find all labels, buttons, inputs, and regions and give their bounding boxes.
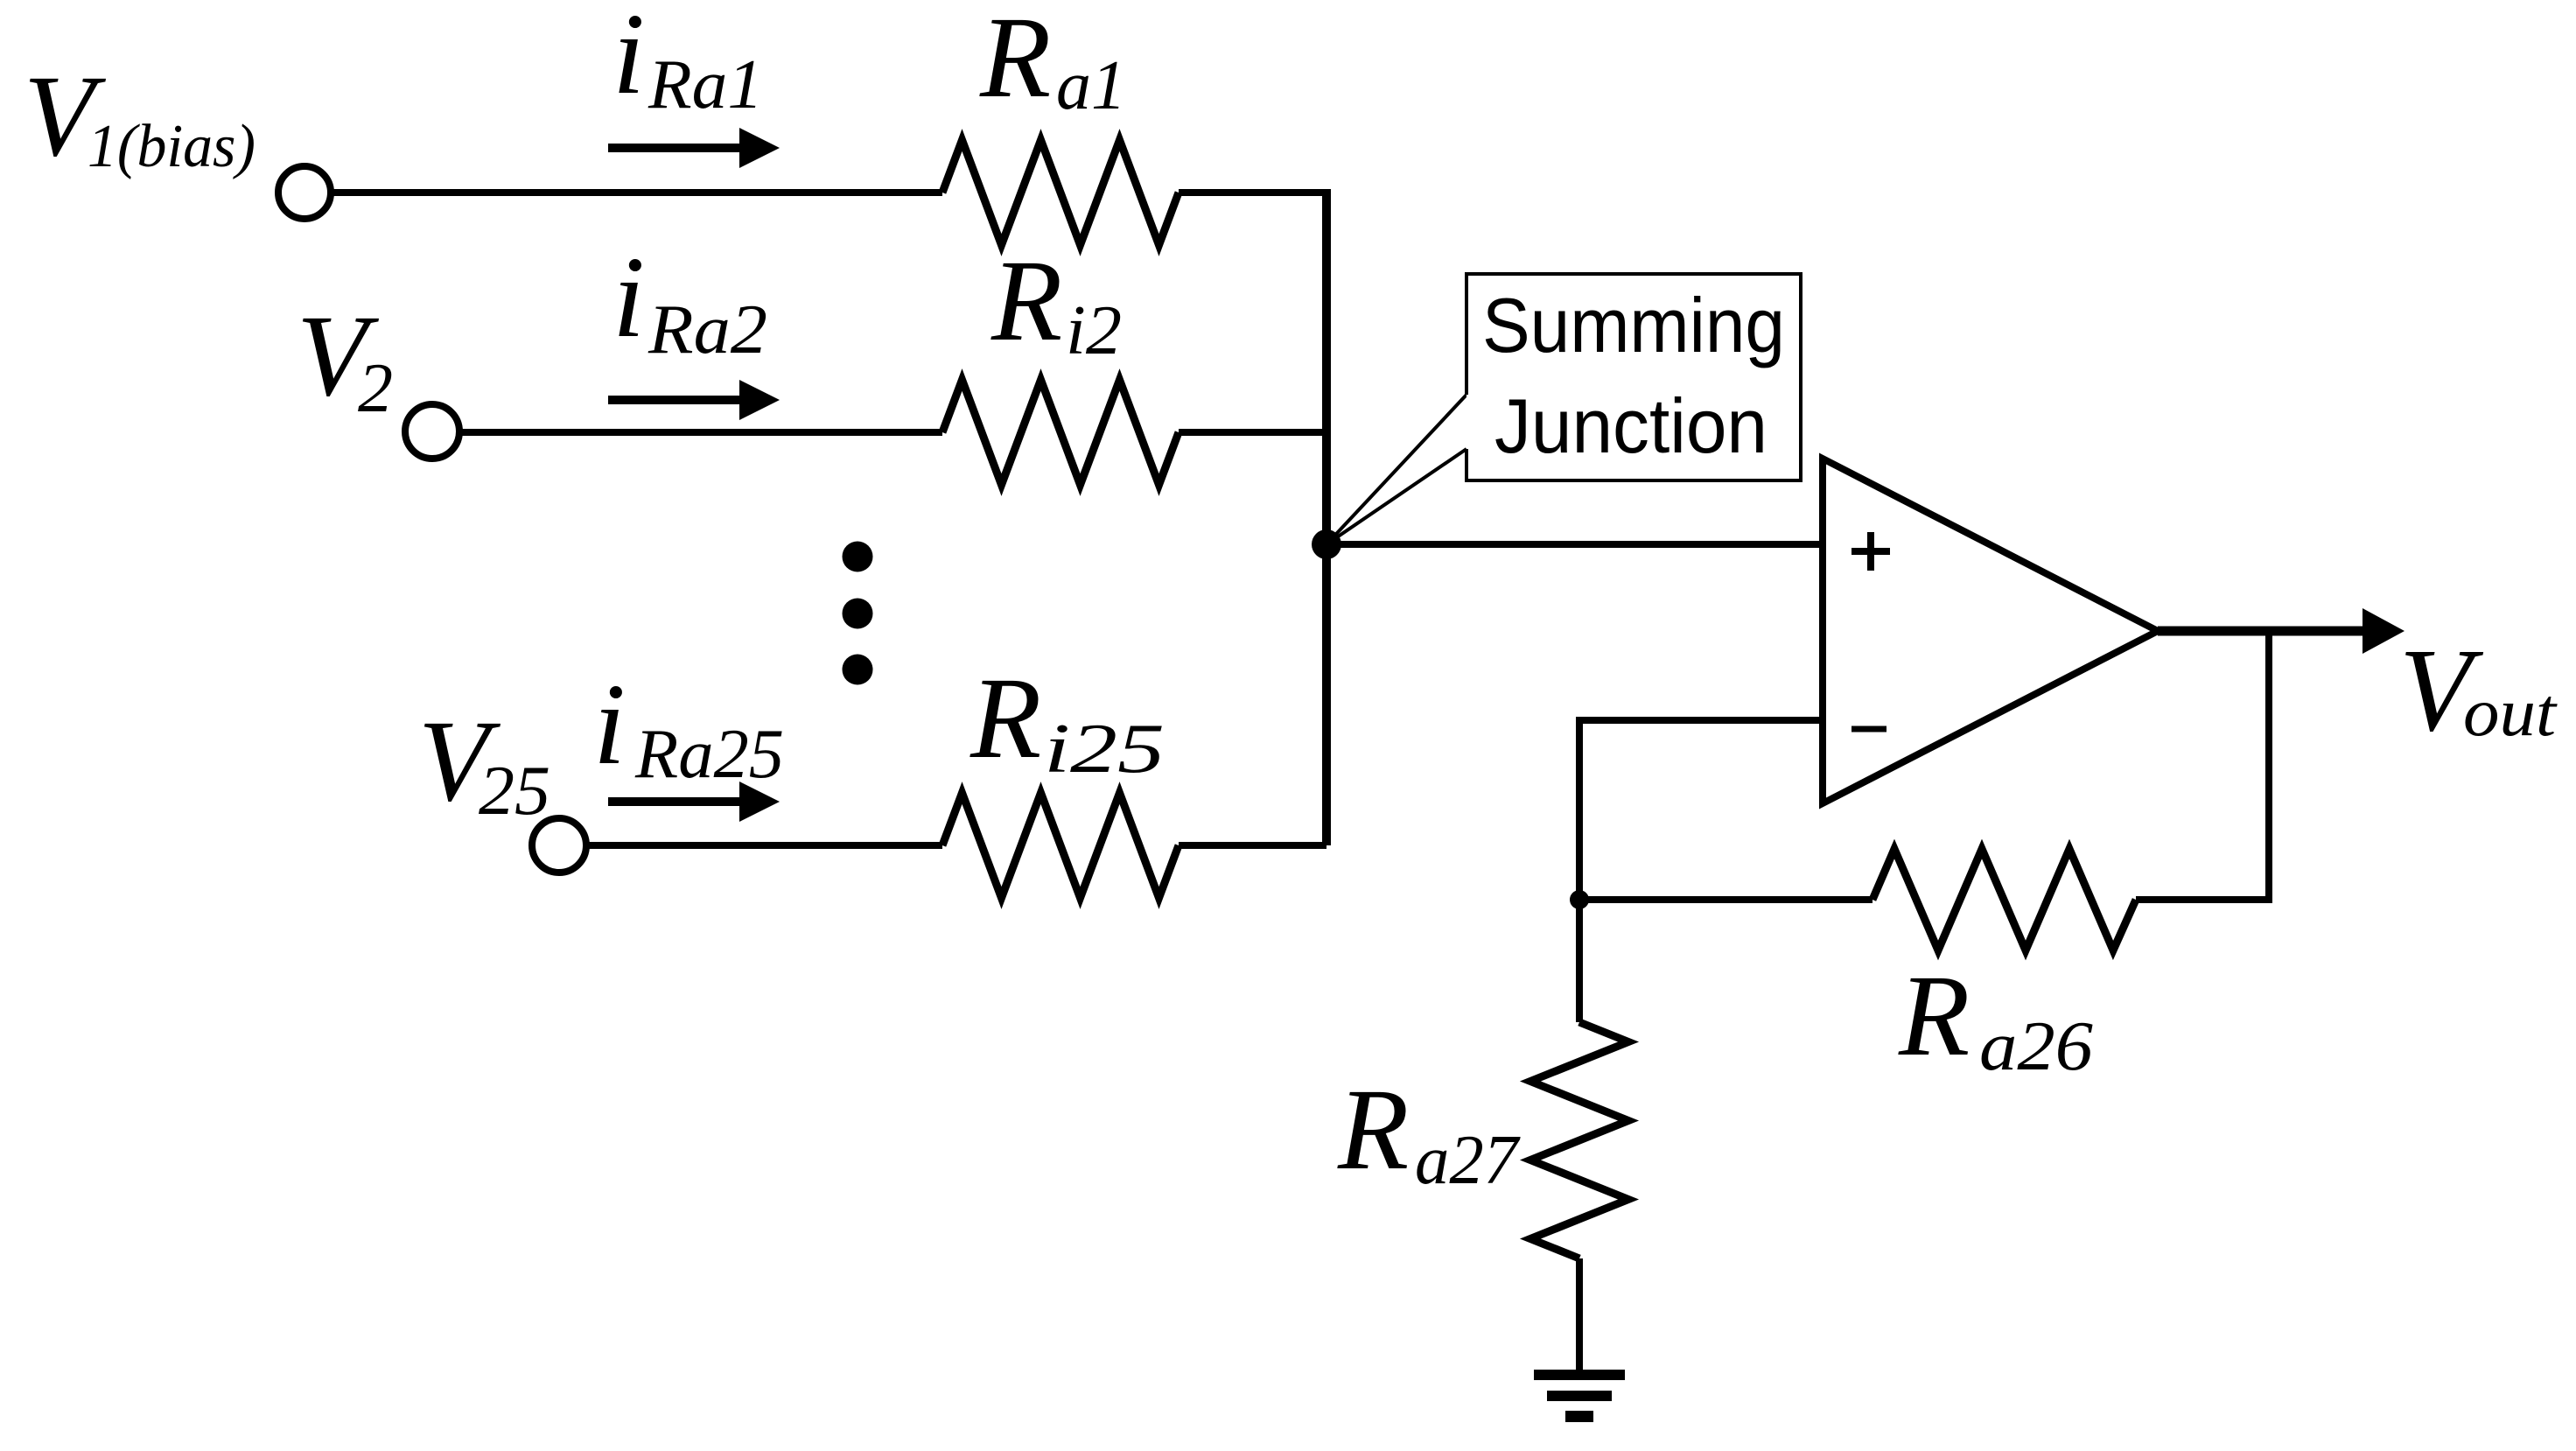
label iRa2 <box>612 232 767 368</box>
resistor Ra26 <box>1872 849 2136 950</box>
svg-text:i: i <box>612 0 645 118</box>
wire feedback node down to Ra27 <box>1576 900 1583 1022</box>
terminal V2 <box>405 404 459 459</box>
label Ra1 <box>979 0 1126 124</box>
current arrow iRa1 <box>608 128 780 168</box>
wire feedback vertical from output tap <box>2265 631 2272 900</box>
svg-text:Junction: Junction <box>1494 382 1767 469</box>
terminal V1(bias) <box>278 166 331 219</box>
wire op-amp minus input <box>1579 717 1823 724</box>
label iRa25 <box>593 659 784 793</box>
label Ra27 <box>1337 1064 1521 1199</box>
svg-text:R: R <box>990 235 1062 365</box>
node V2 label <box>297 291 393 427</box>
label Ri2 <box>990 235 1122 369</box>
svg-text:a26: a26 <box>1979 1008 2093 1085</box>
resistor Ri25 <box>942 793 1179 898</box>
wire row2 from Ri2 to bus <box>1179 429 1326 436</box>
svg-text:out: out <box>2463 674 2558 750</box>
label Ra26 <box>1898 950 2093 1085</box>
wire Ra27 to ground <box>1576 1258 1583 1370</box>
resistor Ra1 <box>942 140 1179 245</box>
wire node to op-amp + input <box>1326 541 1823 548</box>
label Ri25 <box>969 653 1165 788</box>
bus vertical wire <box>1322 189 1331 845</box>
resistor Ra27 <box>1530 1022 1628 1258</box>
svg-text:i25: i25 <box>1044 711 1165 788</box>
svg-text:Ra1: Ra1 <box>647 46 763 123</box>
svg-text:R: R <box>1337 1064 1409 1194</box>
wire row3 from Ri25 to bus <box>1179 842 1326 849</box>
op-amp U1 <box>1823 459 2158 803</box>
wire row3 from terminal to Ri25 <box>587 842 942 849</box>
svg-text:2: 2 <box>358 350 393 427</box>
feedback node <box>1570 890 1589 909</box>
wire feedback node to Ra26 <box>1579 896 1872 903</box>
wire row1 from terminal to Ra1 <box>331 189 942 196</box>
svg-text:Ra25: Ra25 <box>634 716 784 793</box>
svg-text:R: R <box>969 653 1041 782</box>
svg-text:R: R <box>979 0 1051 122</box>
terminal V25 <box>532 818 586 873</box>
svg-text:a27: a27 <box>1415 1122 1521 1199</box>
wire row2 from terminal to Ri2 <box>459 429 942 436</box>
svg-text:R: R <box>1898 950 1970 1080</box>
svg-text:a1: a1 <box>1056 47 1126 124</box>
svg-text:Summing: Summing <box>1482 282 1785 368</box>
output wire with arrow <box>2158 608 2404 654</box>
svg-text:i: i <box>593 659 626 789</box>
label Vout <box>2399 625 2558 756</box>
current arrow iRa25 <box>608 782 780 822</box>
wire minus input down to feedback node <box>1576 717 1583 900</box>
wire row1 from Ra1 to bus <box>1179 189 1331 196</box>
wire Ra26 to output tap <box>2136 896 2272 903</box>
svg-text:25: 25 <box>479 753 550 830</box>
callout box Summing Junction <box>1466 274 1801 480</box>
svg-text:1(bias): 1(bias) <box>87 113 255 180</box>
label iRa1 <box>612 0 763 123</box>
node V25 label <box>418 696 550 830</box>
summing junction node <box>1312 529 1341 559</box>
ellipsis dots <box>843 542 873 685</box>
ground <box>1534 1370 1625 1422</box>
resistor Ri2 <box>942 380 1179 485</box>
current arrow iRa2 <box>608 380 780 420</box>
node V1(bias) label <box>24 51 255 180</box>
svg-text:i2: i2 <box>1066 292 1122 369</box>
svg-text:Ra2: Ra2 <box>647 291 767 368</box>
callout pointer lines <box>1326 395 1466 544</box>
svg-text:i: i <box>612 232 645 361</box>
